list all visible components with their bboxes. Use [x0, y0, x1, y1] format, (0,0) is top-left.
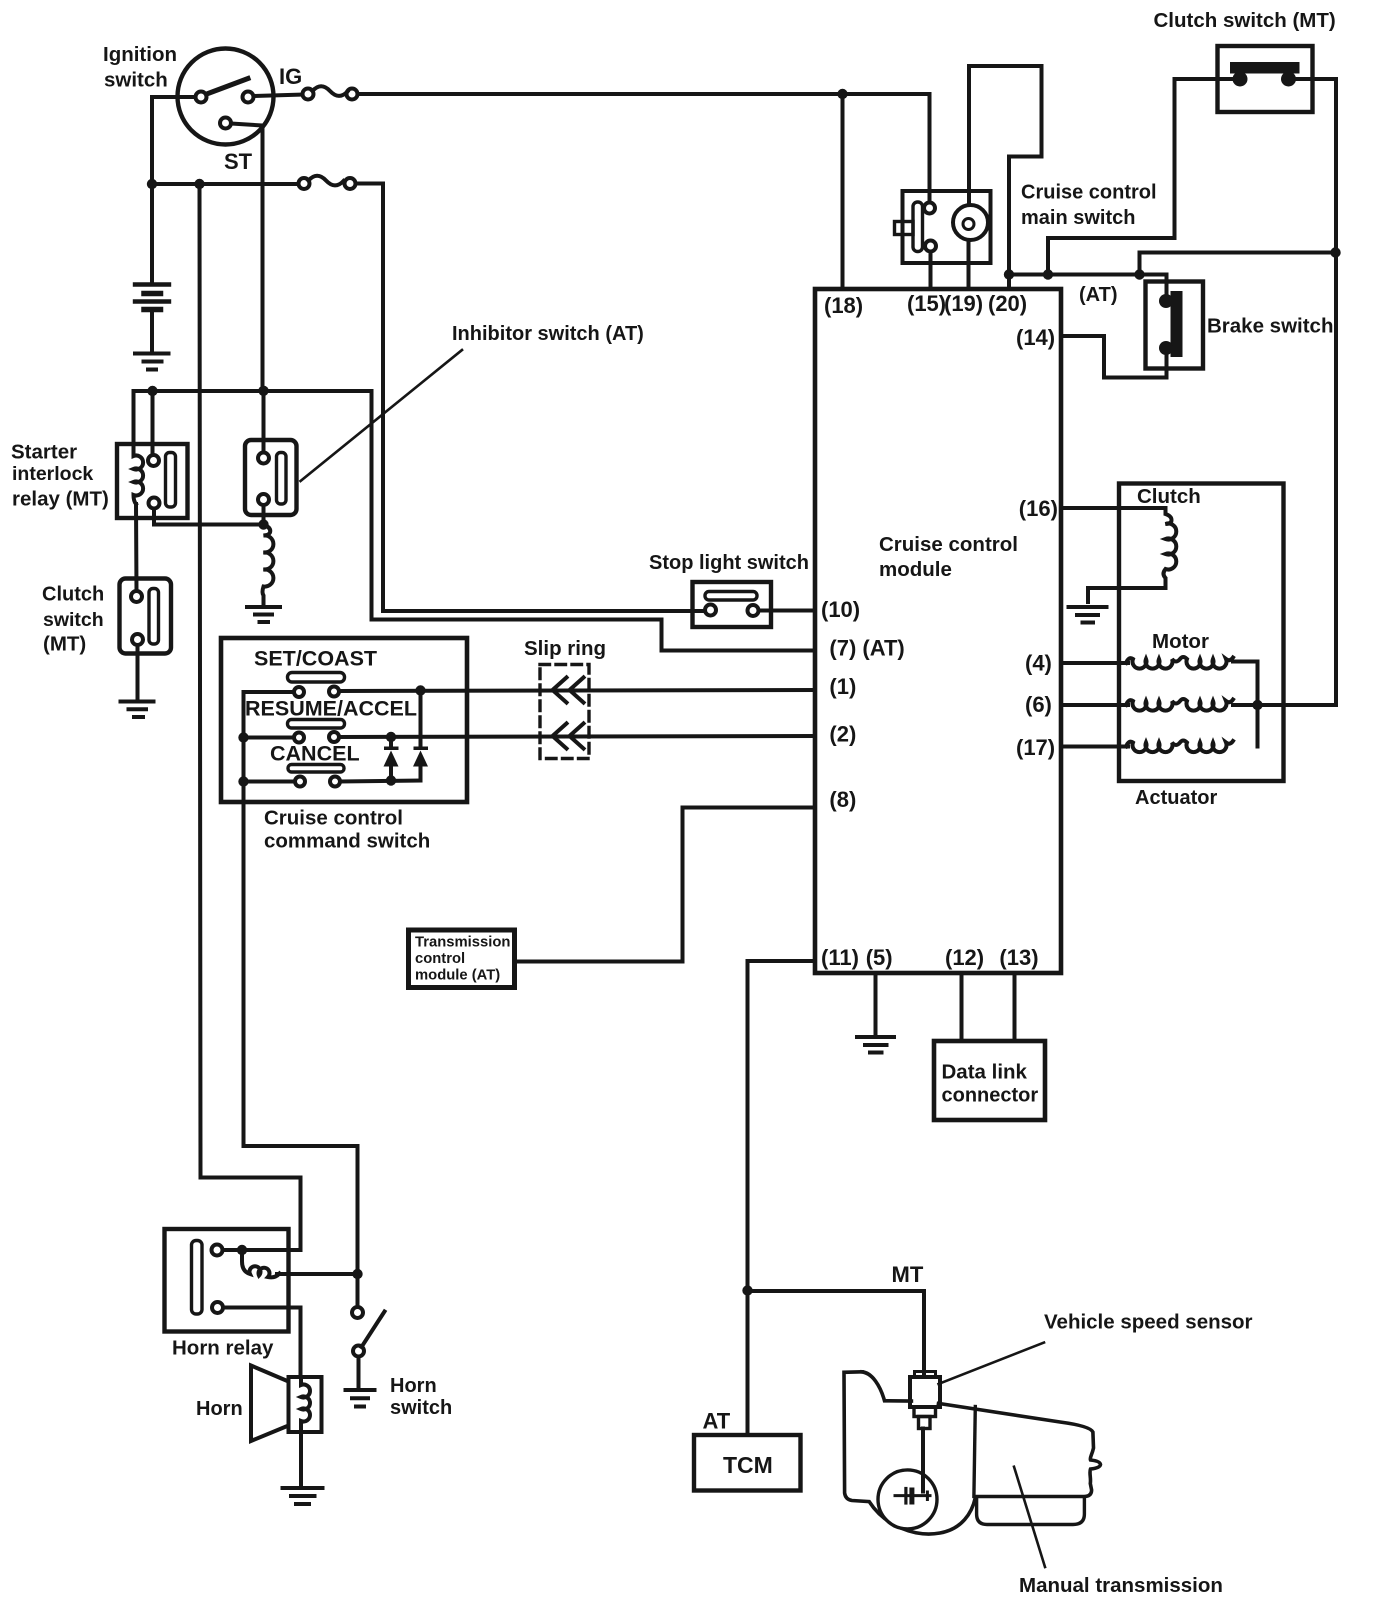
- main switch label: [1021, 182, 1157, 229]
- clutch label: [1137, 485, 1201, 508]
- node ST-horn feed junction: [194, 179, 204, 189]
- coil motor row 2: [1126, 699, 1233, 711]
- slip ring arrows row 1: [553, 678, 584, 703]
- leader manual transmission: [1014, 1467, 1045, 1567]
- manual transmission oil pan: [977, 1498, 1085, 1524]
- svg-text:TCM: TCM: [723, 1452, 773, 1478]
- AT label: [703, 1409, 731, 1434]
- clutch switch label: [42, 583, 104, 655]
- node motor junction: [1252, 700, 1262, 710]
- svg-text:module (AT): module (AT): [415, 968, 500, 984]
- node brake branch junction: [1134, 269, 1144, 279]
- svg-text:command switch: command switch: [264, 830, 430, 853]
- starter interlock relay label: [11, 441, 109, 511]
- clutch switch (MT) top right: [1218, 46, 1313, 112]
- coil inhibitor ground: [263, 525, 274, 604]
- wire clutch coil to ground: [1088, 588, 1166, 602]
- wire MT branch: [748, 1291, 925, 1377]
- TCM box: [694, 1435, 801, 1491]
- svg-text:Manual transmission: Manual transmission: [1019, 1574, 1223, 1597]
- wire ignition left contact: [152, 97, 196, 285]
- contact RESUME left: [294, 733, 304, 743]
- wire CANCEL row right: [340, 781, 421, 782]
- manual transmission shoulder and shelf: [862, 1372, 911, 1401]
- node diode D1 bottom junction: [386, 775, 396, 785]
- data link connector box: [934, 1041, 1045, 1120]
- svg-text:Brake switch: Brake switch: [1207, 315, 1333, 338]
- slip ring label: [524, 637, 606, 660]
- CANCEL label: [270, 742, 360, 766]
- wire pin 12: [960, 973, 964, 1041]
- svg-text:(8): (8): [829, 787, 856, 812]
- wire pin 4: [1061, 661, 1128, 665]
- actuator box: [1119, 484, 1284, 782]
- node horn relay coil junction: [237, 1245, 247, 1255]
- AT label: [1079, 284, 1118, 306]
- svg-text:(2): (2): [829, 722, 856, 747]
- wire relay bottom contact to inhibitor bottom: [154, 509, 264, 525]
- svg-text:switch: switch: [390, 1397, 452, 1419]
- pin 13 label: [999, 945, 1038, 970]
- battery: [135, 285, 169, 310]
- node RESUME left junction: [238, 732, 248, 742]
- svg-text:SET/COAST: SET/COAST: [254, 647, 377, 671]
- ignition switch label: [103, 43, 177, 92]
- brake switch: [1146, 282, 1204, 369]
- svg-text:control: control: [415, 951, 465, 967]
- svg-text:(4): (4): [1025, 650, 1052, 675]
- pin 4 label: [1025, 650, 1052, 675]
- wire brake switch to pin 14: [1061, 336, 1167, 378]
- svg-text:(6): (6): [1025, 692, 1052, 717]
- svg-text:connector: connector: [942, 1085, 1039, 1107]
- svg-text:Cruise control: Cruise control: [879, 533, 1018, 556]
- diode D2: [413, 691, 428, 781]
- node relay contact junction: [147, 386, 157, 396]
- node CANCEL left junction: [238, 776, 248, 786]
- svg-text:MT: MT: [892, 1262, 924, 1287]
- wire motor row 2 to right vertical: [1233, 703, 1336, 707]
- wire lamp to pin 19: [967, 240, 971, 289]
- svg-text:(AT): (AT): [1079, 284, 1118, 306]
- svg-text:(20): (20): [988, 291, 1027, 316]
- ground battery: [135, 354, 169, 370]
- svg-text:(11): (11): [821, 945, 859, 970]
- node ST-battery junction: [147, 179, 157, 189]
- wire relay top contact drop: [151, 391, 155, 455]
- motor label: [1152, 630, 1209, 653]
- node diode D2 top junction: [415, 685, 425, 695]
- wire relay coil to clutch switch: [134, 504, 139, 591]
- wire pin 17: [1061, 745, 1128, 749]
- wire pin 18 drop: [841, 94, 845, 289]
- IG label: [279, 64, 302, 89]
- svg-text:(12): (12): [945, 945, 984, 970]
- wire CANCEL row left: [244, 780, 295, 784]
- wire lamp top zigzag to pin 20 row: [969, 66, 1042, 275]
- horn: [251, 1366, 322, 1442]
- svg-text:(19): (19): [944, 291, 983, 316]
- MT label: [892, 1262, 924, 1287]
- svg-text:Horn: Horn: [390, 1375, 437, 1397]
- horn switch label: [390, 1375, 452, 1419]
- button CANCEL: [288, 765, 344, 773]
- wire brake switch top lead: [1165, 275, 1169, 297]
- wire clutch MT right to far right vertical: [1295, 79, 1336, 705]
- svg-text:module: module: [879, 558, 952, 581]
- wire ignition IG contact to fuse: [254, 95, 303, 97]
- horn switch: [352, 1307, 385, 1357]
- SET/COAST label: [254, 647, 377, 671]
- wire horn feed vertical: [200, 184, 301, 1250]
- svg-text:Horn: Horn: [196, 1398, 243, 1420]
- pin 5 label: [866, 945, 893, 970]
- wire command switch common vertical: [244, 692, 358, 1307]
- cruise control module box: [815, 289, 1061, 973]
- module label: [879, 533, 1018, 581]
- manual transmission bell housing: [844, 1372, 975, 1534]
- node inhibitor top junction: [258, 386, 268, 396]
- svg-text:Transmission: Transmission: [415, 935, 510, 951]
- svg-text:Motor: Motor: [1152, 630, 1209, 653]
- pin 1 label: [829, 674, 856, 699]
- svg-text:switch: switch: [43, 609, 104, 631]
- coil clutch: [1164, 508, 1177, 588]
- svg-text:Slip ring: Slip ring: [524, 637, 606, 660]
- command switch label: [264, 806, 430, 852]
- stop light switch: [693, 582, 772, 627]
- node horn switch junction: [352, 1269, 362, 1279]
- diode D1: [384, 737, 399, 781]
- vehicle speed sensor label: [1044, 1311, 1253, 1334]
- pin 18 label: [824, 293, 863, 318]
- pin 14 label: [1016, 325, 1055, 350]
- svg-text:main switch: main switch: [1021, 207, 1135, 229]
- vehicle speed sensor: [910, 1372, 940, 1429]
- node MT/AT split junction: [742, 1285, 752, 1295]
- button SET/COAST: [288, 673, 345, 683]
- button RESUME/ACCEL: [288, 720, 345, 729]
- svg-text:(18): (18): [824, 293, 863, 318]
- svg-text:relay (MT): relay (MT): [12, 488, 109, 511]
- node pin20 junction: [1004, 269, 1014, 279]
- svg-text:Clutch: Clutch: [1137, 485, 1201, 508]
- leader inhibitor: [301, 350, 463, 481]
- svg-text:Clutch: Clutch: [42, 583, 104, 605]
- brake switch label: [1207, 315, 1333, 338]
- wire clutch switch to ground: [136, 645, 140, 700]
- wire horn relay coil to horn switch: [277, 1272, 358, 1276]
- lamp main switch: [953, 205, 988, 240]
- ground clutch switch: [121, 702, 154, 718]
- svg-text:Cruise control: Cruise control: [1021, 182, 1157, 204]
- wire IG fuse to main switch (pin 18 branch): [358, 94, 930, 203]
- ground pin 5: [857, 1037, 894, 1053]
- svg-text:(MT): (MT): [43, 633, 86, 656]
- wire SET row to module pin 1: [339, 690, 815, 691]
- svg-text:(5): (5): [866, 945, 893, 970]
- pin 7 label: [829, 636, 904, 661]
- ground clutch coil: [1069, 607, 1107, 623]
- pin 12 label: [945, 945, 984, 970]
- ignition switch: [178, 49, 274, 145]
- node diode D1 top junction: [386, 732, 396, 742]
- horn label: [196, 1398, 243, 1420]
- svg-text:Ignition: Ignition: [103, 43, 177, 66]
- wire SET row left: [244, 690, 295, 694]
- contact RESUME right: [329, 732, 339, 742]
- slip ring dashed box: [540, 665, 589, 759]
- horn relay: [165, 1229, 289, 1332]
- manual transmission main body: [939, 1403, 1101, 1496]
- svg-text:AT: AT: [703, 1409, 731, 1434]
- contact CANCEL right: [330, 777, 340, 787]
- wire pin 8 to TCM(AT): [515, 808, 816, 962]
- svg-text:(10): (10): [821, 597, 860, 622]
- TCM AT label: [415, 935, 510, 984]
- wire pin 20 drop: [1007, 275, 1011, 290]
- pin 6 label: [1025, 692, 1052, 717]
- cruise control main switch: [895, 191, 991, 263]
- cruise control command switch box: [221, 638, 467, 802]
- wire pin 11 to bottom: [748, 961, 816, 1435]
- svg-text:(14): (14): [1016, 325, 1055, 350]
- wire RESUME row left: [244, 736, 295, 740]
- torque converter symbol: [895, 1489, 930, 1504]
- svg-text:Stop light switch: Stop light switch: [649, 552, 809, 574]
- ground horn switch: [346, 1390, 375, 1407]
- pin 8 label: [829, 787, 856, 812]
- wire inhibitor bottom contact: [262, 505, 266, 525]
- wire battery to ground: [150, 310, 154, 353]
- torque converter circle: [878, 1470, 937, 1529]
- pin 20 label: [988, 291, 1027, 316]
- svg-text:(15): (15): [907, 291, 946, 316]
- fuse ST: [299, 176, 356, 189]
- pin 19 label: [944, 291, 983, 316]
- wire ST row y=184: [152, 182, 299, 186]
- ST label: [224, 149, 253, 174]
- svg-text:ST: ST: [224, 149, 253, 174]
- wire pin 13: [1013, 973, 1017, 1041]
- manual transmission body left edge: [974, 1407, 975, 1497]
- svg-text:interlock: interlock: [12, 463, 93, 485]
- wire horn to ground: [299, 1432, 303, 1486]
- actuator label: [1135, 787, 1217, 809]
- TCM label: [723, 1452, 773, 1478]
- contact SET right: [329, 687, 339, 697]
- data link connector label: [942, 1061, 1039, 1107]
- wire ST contact down to inhibitor: [263, 126, 264, 453]
- pin 16 label: [1019, 496, 1058, 521]
- contact SET left: [294, 687, 304, 697]
- wire stop light to pin 10: [759, 609, 816, 613]
- wire horn switch to ground: [357, 1357, 361, 1389]
- svg-text:(13): (13): [999, 945, 1038, 970]
- wire pin 16 to clutch coil: [1061, 506, 1166, 510]
- wire junction row y=274.5: [1009, 273, 1167, 277]
- wire coil feed drop: [132, 391, 136, 455]
- wire horn relay bottom contact to horn: [223, 1308, 301, 1378]
- pin 2 label: [829, 722, 856, 747]
- wire ST fuse to stop light switch: [356, 184, 706, 612]
- svg-text:RESUME/ACCEL: RESUME/ACCEL: [245, 697, 417, 721]
- starter interlock relay: [117, 444, 188, 518]
- ground horn: [283, 1488, 323, 1504]
- svg-text:(7) (AT): (7) (AT): [829, 636, 904, 661]
- contact CANCEL left: [295, 777, 305, 787]
- pin 11 label: [821, 945, 859, 970]
- slip ring arrows row 2: [553, 724, 584, 749]
- ground inhibitor: [247, 607, 280, 622]
- wire pin 15: [929, 252, 933, 290]
- inhibitor switch (AT): [245, 440, 297, 515]
- svg-text:Horn relay: Horn relay: [172, 1336, 274, 1359]
- clutch switch (MT): [120, 579, 172, 654]
- node right vertical junction: [1330, 247, 1340, 257]
- stop light switch label: [649, 552, 809, 574]
- clutch switch (MT) top right label: [1154, 9, 1336, 32]
- coil motor row 1: [1126, 657, 1233, 669]
- svg-text:CANCEL: CANCEL: [270, 742, 360, 766]
- fuse IG: [303, 86, 358, 99]
- RESUME/ACCEL label: [245, 697, 417, 721]
- svg-text:Starter: Starter: [11, 441, 77, 464]
- pin 15 label: [907, 291, 946, 316]
- pin 17 label: [1016, 735, 1055, 760]
- leader vehicle speed sensor: [939, 1343, 1045, 1385]
- svg-text:IG: IG: [279, 64, 302, 89]
- wire battery feed row y=391: [134, 391, 816, 651]
- coil horn relay: [242, 1250, 280, 1278]
- vehicle speed sensor wire into transmission: [921, 1429, 925, 1492]
- svg-text:Clutch switch (MT): Clutch switch (MT): [1154, 9, 1336, 32]
- svg-text:(16): (16): [1019, 496, 1058, 521]
- wire motor row 1 right: [1233, 662, 1258, 747]
- svg-text:Vehicle speed sensor: Vehicle speed sensor: [1044, 1311, 1253, 1334]
- wire RESUME row to module pin 2: [339, 736, 815, 737]
- svg-text:Actuator: Actuator: [1135, 787, 1217, 809]
- transmission control module (AT) box: [409, 930, 515, 988]
- svg-text:Inhibitor switch (AT): Inhibitor switch (AT): [452, 323, 644, 345]
- wire to clutch switch MT: [1048, 79, 1233, 275]
- svg-text:(1): (1): [829, 674, 856, 699]
- svg-text:(17): (17): [1016, 735, 1055, 760]
- svg-text:switch: switch: [104, 69, 168, 92]
- wire pin 6: [1061, 703, 1128, 707]
- manual transmission label: [1019, 1574, 1223, 1597]
- horn relay label: [172, 1336, 274, 1359]
- coil motor row 3: [1126, 741, 1233, 753]
- inhibitor switch label: [452, 323, 644, 345]
- svg-text:Data link: Data link: [942, 1061, 1028, 1084]
- node clutch MT branch junction: [1043, 269, 1053, 279]
- wire pin 5 to ground: [874, 973, 878, 1035]
- node IG/pin18 junction: [837, 89, 847, 99]
- wire brake row up to right vertical: [1140, 253, 1336, 275]
- pin 10 label: [821, 597, 860, 622]
- svg-text:Cruise control: Cruise control: [264, 806, 403, 829]
- node inhibitor ground junction: [258, 519, 268, 529]
